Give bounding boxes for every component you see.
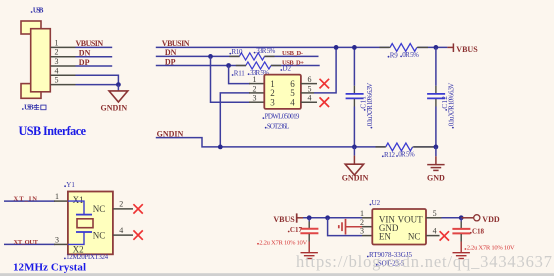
wire U2 pin5 to VDD (442, 217, 462, 219)
svg-text:R9: R9 (390, 51, 399, 59)
U2 pin5 stub (426, 217, 442, 219)
junction C17 (307, 215, 312, 220)
C17 bottom lead (308, 234, 310, 242)
svg-text:PDWL050019: PDWL050019 (265, 113, 300, 121)
wire down to GNDIN (117, 85, 119, 91)
bottom gray strip (0, 273, 554, 276)
wire VBUSIN rail (156, 46, 448, 48)
C17 plates (300, 228, 318, 230)
no-connect X on U2 pin4 (440, 231, 449, 240)
C18 plates (452, 228, 470, 230)
svg-text:NC: NC (93, 204, 106, 214)
R9 pin leads (380, 46, 391, 48)
capacitor C11 top wire (353, 47, 355, 85)
C12 plates (427, 93, 445, 95)
D2 pin5 stub (301, 92, 314, 94)
svg-text:0.1u X7R 10% 6.3V: 0.1u X7R 10% 6.3V (448, 83, 456, 127)
C11 top pin (353, 86, 355, 94)
capacitor C18 top lead (460, 218, 462, 222)
svg-text:2: 2 (119, 200, 123, 209)
ground GNDIN stem (353, 147, 355, 156)
R12 pin leads (376, 146, 386, 148)
svg-text:SOT236L: SOT236L (267, 122, 289, 130)
svg-text:12M20PIXT324: 12M20PIXT324 (66, 253, 109, 261)
svg-text:1: 1 (55, 192, 59, 201)
D2 pin1 stub (249, 83, 264, 85)
power port VBUS lead (297, 217, 303, 219)
Y1 pin2 stub (113, 208, 133, 210)
junction GNDIN rail at C11 (352, 145, 357, 150)
C11 plates (346, 93, 364, 95)
svg-text:VBUSIN: VBUSIN (162, 39, 190, 48)
svg-text:C17: C17 (290, 226, 303, 234)
crystal top electrode line (68, 201, 84, 215)
svg-text:3: 3 (270, 97, 275, 107)
svg-text:5: 5 (433, 209, 437, 218)
hanzi 接 (34, 104, 40, 110)
svg-text:R12: R12 (384, 151, 396, 159)
svg-text:USB_D-: USB_D- (282, 50, 303, 57)
svg-text:DN: DN (79, 49, 91, 58)
svg-text:0R 5%: 0R 5% (398, 151, 415, 159)
svg-text:https://blog.csdn.net/qq_34343: https://blog.csdn.net/qq_34343637 (296, 252, 552, 271)
power port VDD lead (461, 217, 473, 219)
svg-text:DN: DN (165, 48, 177, 57)
svg-text:3: 3 (360, 227, 364, 236)
junction C11 top (352, 45, 357, 50)
svg-text:USB: USB (24, 104, 34, 112)
svg-text:1: 1 (55, 38, 59, 47)
svg-text:6: 6 (308, 75, 312, 84)
svg-text:GNDIN: GNDIN (342, 173, 369, 182)
svg-text:R11: R11 (234, 70, 246, 78)
svg-text:5: 5 (308, 84, 312, 93)
Y1 pin4 stub (113, 234, 133, 236)
svg-text:2.2u X7R 10% 10V: 2.2u X7R 10% 10V (259, 239, 307, 246)
junction GNDIN rail at C12/GND (434, 145, 439, 150)
svg-text:D2: D2 (283, 65, 292, 73)
svg-text:5: 5 (55, 76, 59, 85)
svg-text:USB Interface: USB Interface (19, 124, 87, 138)
crystal Y1 body (68, 192, 113, 255)
svg-text:VDD: VDD (482, 215, 500, 224)
R11 pin leads (236, 65, 246, 67)
junction pin5 wire on rail (334, 45, 339, 50)
ground symbol at U2 pin2 (rotated bars) (345, 219, 347, 235)
resistor R10 zigzag (239, 53, 264, 60)
svg-text:X1: X1 (73, 195, 84, 205)
svg-text:3: 3 (55, 57, 59, 66)
no-connect X on pin6 (320, 79, 330, 89)
Y1 pin3 stub (54, 243, 68, 245)
junction C12 top (434, 45, 439, 50)
svg-text:Y1: Y1 (66, 181, 75, 189)
pin 4 stub (51, 74, 76, 76)
Y1 pin1 stub (54, 200, 68, 202)
no-connect X on Y1 pin2 (133, 204, 142, 213)
ground GND stem (435, 147, 437, 156)
power port VBUS bar (452, 43, 454, 52)
svg-text:GNDIN: GNDIN (101, 103, 128, 112)
svg-text:1: 1 (360, 209, 364, 218)
connector USB bottom mounting square (21, 84, 41, 99)
svg-text:DP: DP (79, 58, 90, 67)
power port VBUS bar (296, 213, 298, 222)
wire XT_IN (4, 200, 55, 202)
svg-text:1: 1 (253, 75, 257, 84)
svg-text:VOUT: VOUT (398, 215, 423, 225)
svg-text:4: 4 (308, 94, 312, 103)
connector USB top mounting square (21, 21, 41, 34)
svg-text:USB: USB (33, 7, 44, 15)
wire D2 pin2 to GNDIN rail (220, 93, 250, 147)
C12 bottom pin (435, 99, 437, 107)
C18 ground bars (453, 252, 470, 254)
pin 3 stub (51, 65, 76, 67)
ground GND bars (427, 164, 444, 166)
wire pin4 L to ground (76, 75, 119, 84)
svg-text:VBUSIN: VBUSIN (76, 39, 104, 48)
svg-text:XT_IN: XT_IN (14, 195, 38, 202)
C12 bottom wire (435, 107, 437, 147)
svg-text:4: 4 (119, 226, 123, 235)
wire DP right of R11 (271, 65, 320, 67)
svg-text:2: 2 (55, 48, 59, 57)
wire pin1 VBUSIN (76, 46, 113, 48)
regulator U2 body (372, 209, 426, 245)
U2 pin3 stub (362, 235, 372, 237)
ground GNDIN power symbol (triangle) (109, 91, 128, 102)
no-connect X on Y1 pin4 (133, 230, 142, 239)
U2 pin2 stub (362, 226, 372, 228)
wire GNDIN lead (156, 138, 436, 147)
U2 pin1 stub (362, 217, 372, 219)
R10 pin leads (229, 55, 239, 57)
svg-text:EN: EN (379, 231, 391, 241)
diode array D2 body (264, 75, 301, 109)
svg-text:NC: NC (408, 231, 421, 241)
pin 1 stub (51, 46, 76, 48)
wire DN (156, 55, 240, 57)
wire XT_OUT (4, 243, 55, 245)
D2 pin6 stub (301, 83, 317, 85)
svg-text:R10: R10 (232, 48, 244, 56)
svg-text:0.1u X7R 10% 6.3V: 0.1u X7R 10% 6.3V (366, 83, 374, 127)
power port VBUS lead (447, 46, 453, 48)
wire DP down to D2 pin1 (229, 66, 250, 84)
pin 2 stub (51, 56, 76, 58)
svg-text:GND: GND (427, 173, 445, 182)
junction DP to D2 (226, 63, 231, 68)
capacitor C17 top lead (308, 218, 310, 222)
wire DN down to D2 pin3 (211, 56, 251, 102)
wire DN right of R10 (265, 55, 319, 57)
C11 bottom wire (353, 107, 355, 147)
resistor R11 zigzag (246, 62, 271, 69)
wire DP (156, 65, 246, 67)
resistor R9 zigzag (389, 44, 418, 52)
svg-text:12MHz Crystal: 12MHz Crystal (13, 262, 86, 274)
svg-text:C18: C18 (472, 227, 485, 235)
ground GNDIN triangle (345, 164, 363, 175)
D2 pin2 stub (249, 92, 264, 94)
junction D2 pin2 ground (218, 145, 223, 150)
svg-text:4: 4 (55, 66, 59, 75)
svg-text:VBUS: VBUS (273, 215, 295, 224)
svg-text:2: 2 (253, 84, 257, 93)
svg-text:NC: NC (93, 231, 106, 241)
pin 5 stub (51, 84, 76, 86)
C17 ground bars (301, 252, 318, 254)
wire D2 pin5 up to VBUSIN rail (314, 47, 336, 93)
svg-text:3: 3 (253, 94, 257, 103)
hanzi 口 (41, 105, 46, 110)
svg-text:4: 4 (433, 227, 437, 236)
D2 pin4 stub (301, 101, 317, 103)
wire pin3 DP (76, 65, 113, 67)
svg-text:3: 3 (55, 236, 59, 245)
no-connect X on pin4 (320, 97, 330, 107)
wire pin5 (76, 84, 119, 86)
junction DN to D2 (208, 54, 213, 59)
wire U2 pin2 to ground (346, 226, 363, 228)
C11 bottom pin (353, 99, 355, 107)
svg-text:4: 4 (290, 97, 295, 107)
svg-text:XT_OUT: XT_OUT (14, 239, 39, 246)
svg-text:U2: U2 (372, 199, 381, 207)
C12 top pin (435, 86, 437, 94)
svg-text:VBUS: VBUS (456, 45, 478, 54)
wire EN loop down (328, 218, 362, 236)
junction EN loop (325, 215, 330, 220)
C18 bottom lead (460, 234, 462, 242)
svg-text:2: 2 (360, 218, 364, 227)
wire pin2 DN (76, 56, 113, 58)
resistor R12 zigzag (385, 143, 414, 151)
U2 pin4 stub (426, 235, 440, 237)
crystal bottom electrode line (76, 231, 92, 233)
capacitor C12 top wire (435, 47, 437, 85)
connector USB body rectangle (31, 29, 51, 92)
D2 pin3 stub (249, 101, 264, 103)
junction C18 (459, 215, 464, 220)
svg-text:2.2u X7R 10% 10V: 2.2u X7R 10% 10V (467, 245, 515, 252)
wire VBUS to U2 pin1 (303, 217, 362, 219)
svg-text:DP: DP (165, 58, 176, 67)
svg-text:33R 5%: 33R 5% (256, 47, 275, 55)
power port VDD circle (474, 215, 480, 221)
svg-text:0R 5%: 0R 5% (402, 51, 419, 59)
crystal element rectangle (77, 219, 93, 228)
junction pin4/pin5 (116, 82, 121, 87)
